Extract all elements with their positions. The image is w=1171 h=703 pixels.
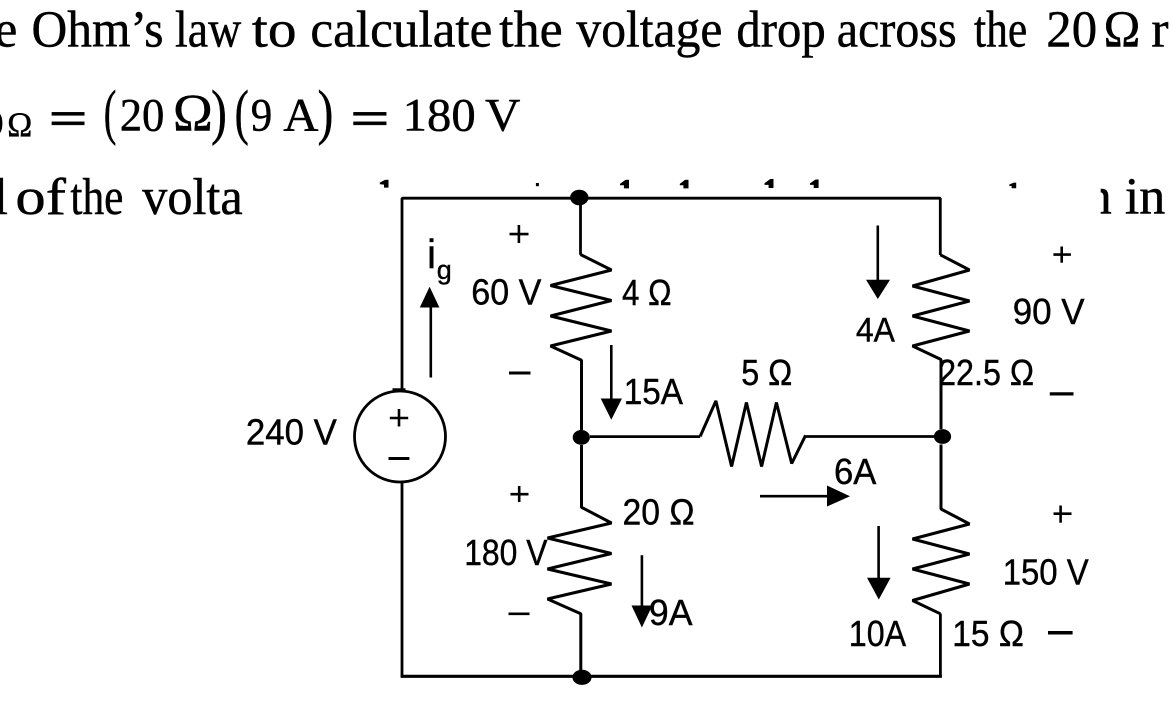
- polarity + (top-left 60V): [510, 225, 529, 243]
- svg-text:180 V: 180 V: [464, 532, 547, 573]
- svg-text:): ): [318, 78, 334, 146]
- node: text line 3 left: [0, 169, 243, 226]
- wire: middle right segment: [806, 435, 935, 438]
- svg-text:the: the: [499, 2, 563, 59]
- svg-text:the: the: [70, 169, 123, 226]
- node: ascender fragments of covered text: [380, 179, 1016, 189]
- svg-text:Ω: Ω: [173, 85, 213, 142]
- polarity - (lower-left 180V): [509, 612, 530, 615]
- polarity - (right-bottom 150V): [1048, 631, 1073, 635]
- value labels: [246, 272, 1089, 654]
- svg-text:): ): [211, 78, 227, 146]
- svg-text:20: 20: [120, 89, 165, 141]
- wire: top rail and left/right verticals: [402, 198, 940, 391]
- resistor 5ohm zigzag: [700, 401, 805, 467]
- svg-text:240 V: 240 V: [246, 412, 337, 453]
- svg-text:90 V: 90 V: [1013, 291, 1085, 332]
- svg-text:9: 9: [251, 89, 272, 141]
- polarity - (right-top 90V): [1050, 392, 1074, 395]
- svg-text:15A: 15A: [624, 371, 683, 412]
- svg-text:volta: volta: [142, 169, 243, 226]
- svg-text:20: 20: [1046, 2, 1097, 59]
- current arrow 9A (down): [632, 555, 653, 627]
- voltage source 240V circle: [355, 391, 446, 482]
- svg-text:Ω: Ω: [1104, 2, 1141, 59]
- svg-text:V: V: [485, 89, 520, 141]
- svg-text:9A: 9A: [649, 592, 693, 633]
- svg-text:150 V: 150 V: [1003, 552, 1089, 593]
- svg-text:n in: n in: [1086, 169, 1166, 226]
- node A top junction dot: [570, 190, 588, 206]
- svg-text:across: across: [837, 2, 957, 59]
- node: text line 1: [0, 2, 1169, 59]
- node: math line v20ohm = (20)(9A) = 180V: [0, 78, 520, 147]
- current arrow 10A (down): [867, 526, 891, 600]
- current arrow i_g (up): [420, 287, 440, 378]
- svg-text:drop: drop: [736, 2, 825, 59]
- label i_g: [427, 231, 452, 285]
- svg-text:i: i: [427, 231, 436, 277]
- resistor 20ohm zigzag: [548, 445, 612, 670]
- node: text line 3 right fragment "n in": [1086, 169, 1166, 226]
- svg-text:e: e: [0, 2, 17, 59]
- wire: middle left segment: [590, 435, 700, 438]
- svg-text:5 Ω: 5 Ω: [741, 352, 792, 393]
- wire: right lower vertical: [939, 614, 942, 677]
- svg-text:voltage: voltage: [576, 2, 722, 59]
- svg-text:60 V: 60 V: [471, 272, 541, 313]
- polarity + (right-bottom 150V): [1054, 506, 1072, 523]
- svg-text:4A: 4A: [856, 312, 895, 350]
- svg-text:22.5 Ω: 22.5 Ω: [938, 352, 1034, 393]
- wire: stub from top node down: [579, 198, 582, 255]
- svg-text:of: of: [15, 169, 66, 226]
- svg-text:A: A: [283, 89, 318, 141]
- resistor 4ohm zigzag: [551, 255, 612, 431]
- resistor 15ohm zigzag: [913, 445, 970, 614]
- svg-text:law: law: [175, 2, 241, 59]
- svg-text:l: l: [0, 169, 8, 226]
- svg-text:6A: 6A: [834, 451, 876, 492]
- svg-text:to: to: [252, 2, 297, 59]
- polarity + (right-top 90V): [1053, 247, 1071, 263]
- node B middle-left junction dot: [573, 430, 590, 445]
- svg-text:calculate: calculate: [310, 2, 492, 59]
- node C middle-right junction dot: [934, 429, 951, 444]
- svg-text:180: 180: [403, 89, 476, 141]
- svg-text:g: g: [437, 255, 452, 285]
- current arrow 4A (down): [866, 226, 890, 300]
- wire: tick at circle top: [393, 388, 406, 391]
- polarity + (source circle): [390, 409, 408, 427]
- svg-text:Ohm’s: Ohm’s: [32, 2, 164, 59]
- svg-text:15 Ω: 15 Ω: [952, 613, 1024, 654]
- wire: left lower vertical: [401, 482, 404, 676]
- svg-text:0: 0: [0, 104, 4, 143]
- svg-text:4 Ω: 4 Ω: [622, 272, 672, 313]
- node D bottom junction dot: [572, 670, 591, 685]
- wire: bottom rail: [401, 675, 942, 678]
- polarity + (lower-left 180V): [511, 486, 529, 502]
- polarity - (top-left 60V): [509, 372, 531, 375]
- resistor 22.5ohm zigzag: [913, 255, 970, 429]
- svg-text:r: r: [1151, 2, 1168, 59]
- svg-text:20 Ω: 20 Ω: [623, 492, 695, 533]
- svg-text:(: (: [235, 79, 249, 146]
- svg-text:Ω: Ω: [7, 106, 32, 145]
- svg-text:the: the: [974, 2, 1027, 59]
- svg-text:(: (: [104, 78, 117, 145]
- current arrow 6A (right): [760, 486, 850, 507]
- current arrow 15A (down): [601, 345, 622, 420]
- svg-text:10A: 10A: [849, 613, 906, 654]
- polarity - (source circle): [389, 457, 410, 460]
